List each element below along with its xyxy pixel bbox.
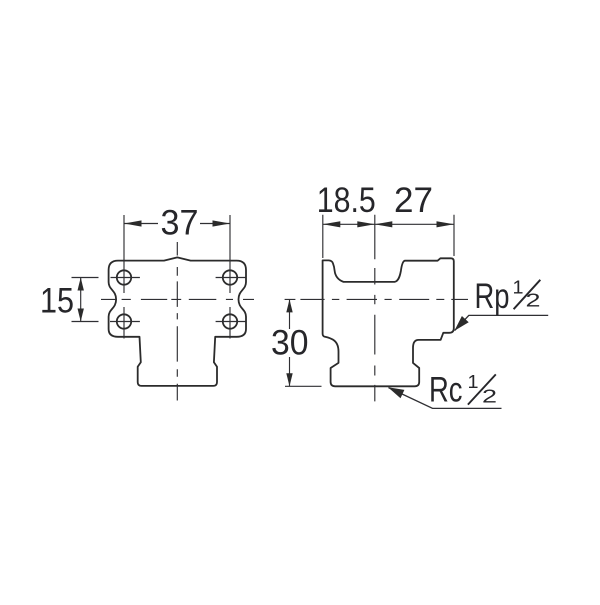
dimension line 18.5 and 27 xyxy=(323,223,454,225)
dim 18.5/27 extension lines xyxy=(323,215,454,258)
leader Rc1/2 arrowhead xyxy=(388,387,404,398)
left view flange outline xyxy=(109,257,246,386)
hole centermark verticals / dim-37 extension lines xyxy=(124,215,230,339)
arrows 18.5 xyxy=(323,221,341,227)
dimension 37 text xyxy=(158,209,200,236)
svg-text:30: 30 xyxy=(271,324,309,363)
hole top-left xyxy=(117,270,131,284)
hole centermark horizontals xyxy=(110,278,246,322)
dimension 30 bottom extension line xyxy=(285,385,322,387)
leader Rc1/2 line xyxy=(389,388,502,409)
left view horizontal centerline xyxy=(101,298,254,300)
hole top-right xyxy=(223,270,237,284)
dimension 30 text xyxy=(271,329,308,357)
dimension 15 arrows xyxy=(78,278,84,291)
leader Rp1/2 arrowhead xyxy=(454,316,468,331)
hole bottom-left xyxy=(117,314,131,328)
svg-text:1: 1 xyxy=(468,372,479,392)
dimension 30 arrows xyxy=(286,299,292,312)
svg-text:2: 2 xyxy=(482,387,497,407)
dimension 37 arrows xyxy=(124,220,142,226)
svg-text:27: 27 xyxy=(394,181,433,220)
svg-text:Rc: Rc xyxy=(429,370,463,409)
dimension 15 line xyxy=(80,278,82,322)
leader Rp1/2 line xyxy=(455,315,549,330)
svg-text:37: 37 xyxy=(161,204,199,243)
svg-text:Rp: Rp xyxy=(475,277,510,316)
svg-text:1: 1 xyxy=(513,278,524,298)
arrows 27 xyxy=(375,221,393,227)
svg-text:18.5: 18.5 xyxy=(317,181,376,220)
right view body outline xyxy=(323,258,454,386)
dimension 30 line xyxy=(289,299,291,386)
right view vertical centerline xyxy=(374,215,376,402)
right view horizontal centerline xyxy=(285,298,468,300)
svg-text:15: 15 xyxy=(40,282,74,321)
dimension 37 line xyxy=(124,223,230,225)
dimension 15 extension lines xyxy=(72,278,99,322)
hole bottom-right xyxy=(223,314,237,328)
left view vertical centerline xyxy=(176,242,178,401)
svg-text:2: 2 xyxy=(526,291,541,311)
